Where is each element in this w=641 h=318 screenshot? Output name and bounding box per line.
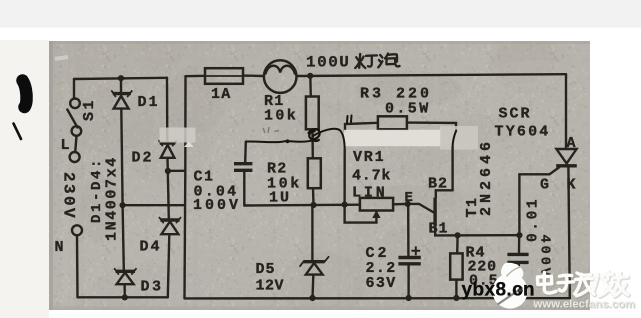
svg-text:B2: B2 [428,176,448,193]
wire D4 bottom [168,235,170,298]
node D2-D4 junction [165,168,171,174]
node D5 bottom [309,295,315,301]
svg-text:www.elecfans.com: www.elecfans.com [533,299,636,311]
erasure bright spot [184,142,194,148]
wire lamp to SCR corner [298,74,567,76]
wire S1 to L terminal [75,136,76,152]
wire SCR cathode [568,168,569,299]
svg-text:1N4007x4: 1N4007x4 [104,156,121,241]
wire C3 bottom lead [518,265,520,299]
svg-text:N: N [55,239,64,256]
svg-text:D5: D5 [256,261,276,278]
wire top rail from S1 to D2 corner [74,78,167,79]
wire D2 column from rail [166,78,169,142]
label lamp CJK dengpao [355,54,399,68]
resistor R1 [306,97,319,130]
wire B2 link [436,190,453,197]
node R4 top junction [455,232,461,238]
svg-text:G: G [540,177,549,194]
node VR1 left junction [342,202,348,208]
resistor R2 [308,158,321,188]
svg-text:12V: 12V [256,278,285,295]
svg-text:D2: D2 [132,150,154,167]
wire R2 bottom [312,188,315,205]
pen wire to C1 [246,141,311,142]
diode D2 [159,141,176,158]
svg-text:100U: 100U [306,54,350,72]
svg-text:L: L [61,137,70,154]
svg-text:D3: D3 [141,279,164,296]
wire D1 column down [121,109,124,270]
node R4 bottom [453,295,459,301]
wire mid-left [123,204,185,206]
logo elecfans circle [492,263,527,309]
capacitor C2 [398,246,420,263]
terminal L [70,152,80,162]
node top rail junction [118,75,124,81]
svg-text:1A: 1A [211,86,231,103]
svg-text:0.5W: 0.5W [385,101,431,118]
erasure patch at D2 [160,128,196,143]
svg-text:100V: 100V [193,197,241,214]
svg-text:230V: 230V [60,172,78,220]
pen smudge under R1 label [263,127,279,133]
node lamp-R1 junction [307,73,313,79]
svg-text:TY604: TY604 [495,124,551,141]
zener D5 [300,257,329,275]
wire C2 bottom lead [407,266,409,299]
node bottom-left junction [122,294,128,300]
wire SCR anode [565,74,567,148]
svg-text:SCR: SCR [499,106,532,123]
potentiometer VR1 [345,198,394,223]
wire C1 top lead [244,142,247,162]
pen squiggle R1 to VR1 loop [313,129,345,150]
pen mark thin slash (left margin) [14,124,22,140]
wire C1 bottom lead [243,172,245,205]
pen knot at R1 bottom [309,129,320,141]
wire R3 right lead [407,123,456,131]
wire mid rail VR1 to E [393,203,408,206]
node gate junction [516,232,522,238]
erasure patch above VR1 [344,130,441,146]
wire C3 top lead [518,235,521,252]
erasure patch right [440,126,478,150]
wire D4 column [168,171,169,218]
svg-text:4.7k: 4.7k [352,168,391,185]
watermark CJK dianzifashaoyou [538,272,629,297]
resistor R3 [378,116,407,129]
watermark www.elecfans.com [533,299,637,312]
wire fuse to lamp [243,74,264,77]
wire S1 drop [73,79,75,99]
transistor T1 emitter [408,204,434,213]
svg-text:63V: 63V [366,275,397,292]
node E junction [405,201,411,207]
svg-text:1U: 1U [269,190,291,207]
wire R3 left lead [345,123,378,131]
node C2 bottom [406,295,412,301]
scanned paper area [49,21,590,318]
wire tee at node [168,170,186,172]
wire N leg [76,235,79,297]
wire R4 top lead [456,235,459,253]
wire R1 to R2 link [311,129,314,158]
wire C2 top lead [407,204,410,256]
wire gate vertical [518,174,520,235]
svg-text:VR1: VR1 [353,149,385,166]
wire fuse lead [186,75,206,78]
wire bottom-left rail [78,296,168,298]
top gray band [0,0,641,28]
svg-text:B1: B1 [429,221,449,238]
svg-text:2N2646: 2N2646 [478,138,495,216]
diode D3 [115,269,136,284]
wire AC feed vertical [185,76,186,298]
wire right loop vertical [451,147,453,190]
pen mark on R3 lead [347,116,352,123]
wire gate horizontal [519,167,559,174]
capacitor C3 [507,254,528,262]
pen mark thick comma (left margin) [23,81,27,108]
diode D1 [112,91,132,109]
svg-text:D1: D1 [138,94,160,111]
resistor R4 [450,253,462,279]
node R2-rail junction [310,202,316,208]
pen curve right loop [453,131,457,148]
svg-text:D4: D4 [140,239,162,256]
transistor T1 base bar [433,198,436,226]
fuse 1A [205,68,243,84]
lamp 100W [264,60,297,93]
wire bottom-right rail [185,297,571,300]
wire B1 lead [435,225,519,235]
terminal N [72,225,82,235]
diode D4 [159,218,180,235]
switch S1 [67,99,81,136]
wire D3 bottom [123,285,126,298]
wire D5 column [311,205,314,298]
wire D2 to node [166,158,169,171]
wire D1 column top [120,78,122,93]
node mid-left junction [120,202,126,208]
svg-text:10k: 10k [264,108,298,125]
light scratch artifact [55,55,68,61]
svg-text:S1: S1 [81,98,98,121]
capacitor C1 [234,164,252,171]
wire mid rail to VR1 [244,203,360,206]
wire VR1 loop left vertical [343,150,346,205]
thyristor SCR [556,149,577,166]
wire R4 bottom lead [455,280,457,298]
wire R1 drop [309,76,312,97]
svg-text:ybx8.cn: ybx8.cn [462,280,536,301]
